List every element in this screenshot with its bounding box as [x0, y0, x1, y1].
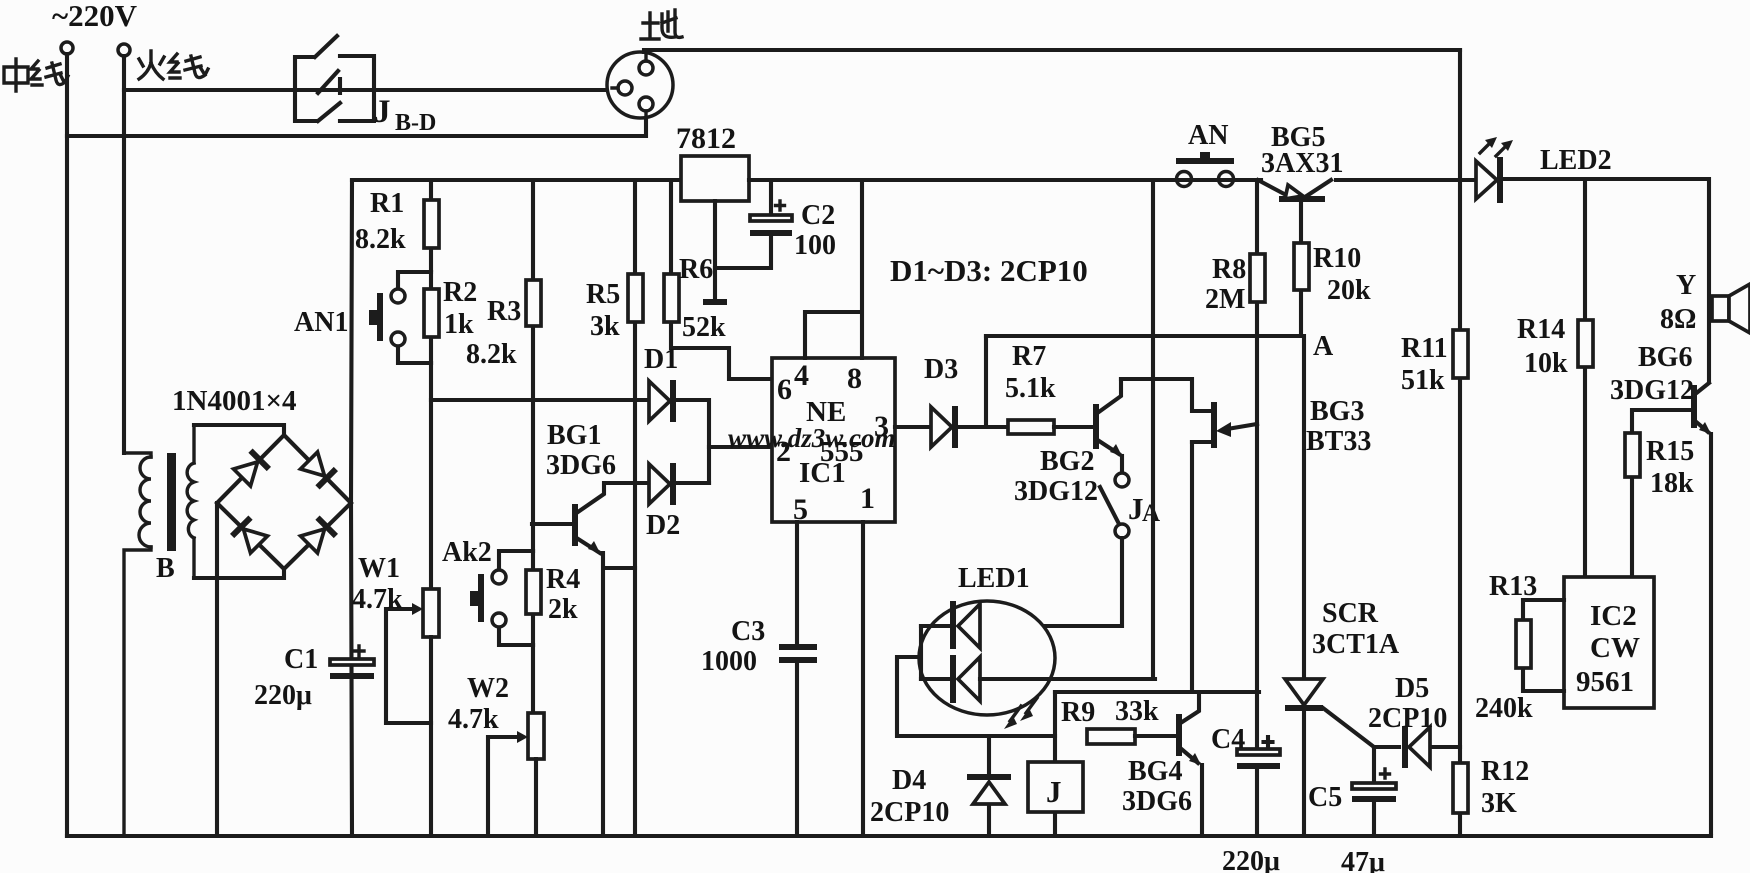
svg-text:A: A	[1313, 331, 1334, 362]
wire rail to LED line vertical	[1151, 180, 1155, 678]
wire bridge plus up to rail	[351, 180, 352, 836]
transistor BG3 BT33	[1192, 402, 1257, 448]
transformer B core	[167, 453, 176, 551]
wire pin2 tap	[709, 445, 772, 449]
svg-text:R2: R2	[443, 277, 477, 308]
capacitor C2	[715, 180, 792, 268]
IC2 box	[1564, 577, 1654, 708]
diode D5	[1374, 726, 1460, 768]
svg-text:R8: R8	[1212, 254, 1246, 285]
resistor R6	[664, 274, 679, 322]
svg-text:R10: R10	[1313, 243, 1361, 274]
resistor R12	[1453, 763, 1468, 813]
wire timing node horizontal to D1	[431, 398, 649, 402]
wire R6 column	[671, 180, 772, 379]
wire live to switch to socket	[124, 88, 606, 92]
svg-text:Ak2: Ak2	[442, 537, 492, 568]
svg-text:100: 100	[794, 230, 836, 261]
svg-text:D1~D3: 2CP10: D1~D3: 2CP10	[890, 253, 1088, 288]
pushbutton AN1	[369, 272, 431, 363]
rectifier bridge diamond	[217, 435, 351, 569]
transformer B primary coil	[124, 453, 151, 836]
wire R7 to BG2 base	[1054, 425, 1094, 429]
wire D2 to junction	[672, 481, 709, 485]
bridge diode bottom-left	[232, 518, 268, 554]
svg-text:R15: R15	[1646, 436, 1694, 467]
svg-text:BG3: BG3	[1310, 396, 1364, 427]
resistor R13 loop	[1516, 600, 1564, 691]
svg-text:B-D: B-D	[395, 110, 436, 136]
wire neutral vertical	[65, 54, 69, 836]
svg-text:220μ: 220μ	[1222, 846, 1280, 873]
svg-text:LED1: LED1	[958, 563, 1030, 594]
svg-text:52k: 52k	[682, 312, 726, 343]
capacitor C3	[779, 647, 817, 836]
socket 地 earth connector	[607, 52, 673, 118]
wire top earth rail	[644, 50, 1460, 52]
svg-text:4.7k: 4.7k	[448, 704, 499, 735]
svg-text:33k: 33k	[1115, 696, 1159, 727]
svg-text:9561: 9561	[1576, 666, 1634, 698]
svg-text:R9: R9	[1061, 697, 1095, 728]
capacitor C5	[1352, 747, 1396, 836]
svg-text:R14: R14	[1517, 314, 1565, 345]
resistor R9	[1087, 729, 1177, 744]
svg-text:20k: 20k	[1327, 275, 1371, 306]
svg-text:AN1: AN1	[294, 307, 348, 338]
resistor R3	[526, 280, 541, 326]
svg-text:3k: 3k	[590, 311, 620, 342]
svg-text:AN: AN	[1188, 120, 1228, 151]
svg-text:2M: 2M	[1205, 284, 1245, 315]
wire BG6 base R15	[1632, 410, 1694, 577]
diode D2	[649, 463, 673, 505]
svg-text:3DG12: 3DG12	[1014, 476, 1098, 507]
svg-text:D2: D2	[646, 510, 680, 541]
resistor R14	[1578, 320, 1593, 367]
bridge diode top-right	[300, 451, 336, 487]
svg-text:R3: R3	[487, 296, 521, 327]
svg-text:CW: CW	[1590, 632, 1640, 664]
resistor R10	[1294, 202, 1309, 336]
svg-text:BG4: BG4	[1128, 756, 1182, 787]
svg-text:47μ: 47μ	[1341, 847, 1385, 873]
svg-text:~220V: ~220V	[52, 0, 138, 33]
svg-text:8.2k: 8.2k	[466, 339, 517, 370]
transistor BG5	[1258, 180, 1331, 199]
svg-text:7812: 7812	[676, 122, 736, 155]
svg-text:R7: R7	[1012, 341, 1046, 372]
IC1 555 box	[772, 358, 895, 522]
wire R14 column	[1583, 179, 1587, 577]
svg-text:3DG6: 3DG6	[546, 450, 616, 481]
svg-text:1k: 1k	[444, 309, 474, 340]
svg-text:R6: R6	[679, 254, 713, 285]
resistor R8	[1250, 180, 1265, 424]
label J B-D	[374, 94, 436, 136]
svg-text:2CP10: 2CP10	[1368, 703, 1447, 734]
wire bottom ground rail	[67, 834, 1711, 838]
svg-text:J: J	[1046, 774, 1062, 809]
relay J coil	[1028, 692, 1083, 836]
wire BG1 collector to D2	[605, 481, 649, 485]
svg-text:1N4001×4: 1N4001×4	[172, 385, 296, 417]
wire relay node horizontal	[1055, 690, 1259, 694]
svg-text:220μ: 220μ	[254, 680, 312, 711]
svg-text:BG2: BG2	[1040, 446, 1094, 477]
resistor R2	[424, 272, 439, 363]
svg-text:4.7k: 4.7k	[352, 584, 403, 615]
svg-text:51k: 51k	[1401, 365, 1445, 396]
svg-text:LED2: LED2	[1540, 145, 1612, 176]
wire LED1 cathode loop	[897, 626, 1055, 736]
resistor R5	[628, 274, 643, 322]
wire second line to socket	[67, 117, 646, 136]
led LED2	[1476, 137, 1513, 203]
svg-text:1: 1	[860, 482, 875, 515]
svg-text:SCR: SCR	[1322, 598, 1379, 629]
wire R3 column	[531, 180, 535, 400]
wire LED2 to right column	[1503, 179, 1709, 380]
svg-text:IC2: IC2	[1590, 600, 1637, 632]
switch J B-D	[295, 36, 374, 121]
bridge diode top-left	[233, 451, 269, 487]
svg-text:C2: C2	[801, 200, 835, 231]
diode D4	[967, 736, 1011, 836]
wire pin4 pin8 supply	[805, 180, 862, 358]
svg-text:2CP10: 2CP10	[870, 797, 949, 828]
svg-text:3CT1A: 3CT1A	[1312, 629, 1400, 660]
transistor BG1	[532, 483, 635, 836]
svg-text:8.2k: 8.2k	[355, 224, 406, 255]
wire 7812 ground pin	[713, 201, 717, 301]
capacitor C4	[1237, 737, 1280, 836]
svg-text:BG1: BG1	[547, 420, 601, 451]
resistor R4	[526, 551, 541, 645]
wire main rail middle	[749, 178, 1261, 182]
svg-text:R13: R13	[1489, 571, 1537, 602]
wire emitter C4 vertical	[1255, 424, 1259, 750]
svg-text:3AX31: 3AX31	[1261, 148, 1343, 179]
led LED1 lower	[921, 655, 1155, 703]
diode D3	[931, 406, 955, 448]
transistor BG2	[1096, 379, 1122, 473]
potentiometer W1	[386, 589, 439, 836]
svg-text:www.dz3w.com: www.dz3w.com	[728, 423, 896, 453]
svg-text:J: J	[374, 94, 391, 130]
wire pin5 down	[795, 522, 799, 645]
svg-text:D5: D5	[1395, 673, 1429, 704]
svg-text:3DG12: 3DG12	[1610, 375, 1694, 406]
switch JA	[1100, 473, 1129, 538]
svg-text:IC1: IC1	[799, 457, 846, 489]
svg-text:6: 6	[777, 373, 792, 406]
wire bridge minus down	[215, 503, 219, 836]
pushbutton AN	[1176, 152, 1234, 187]
wire R5 column	[633, 180, 637, 836]
ground bar	[703, 299, 727, 305]
svg-text:R5: R5	[586, 279, 620, 310]
wire D1 to pin2 junction	[672, 400, 709, 483]
wire live vertical	[122, 56, 126, 453]
wire rail BG5 to LED2	[1336, 178, 1477, 182]
diode D1	[649, 380, 673, 422]
wire secondary to bridge bottom	[194, 569, 284, 578]
svg-text:W2: W2	[467, 673, 509, 704]
svg-text:Y: Y	[1676, 270, 1696, 301]
wire R11 R12 column	[1458, 50, 1462, 836]
resistor R1	[424, 200, 439, 248]
svg-text:1000: 1000	[701, 646, 757, 677]
bridge diode bottom-right	[300, 518, 336, 554]
svg-text:R11: R11	[1401, 333, 1448, 364]
svg-text:D3: D3	[924, 354, 958, 385]
transistor BG6	[1694, 383, 1711, 833]
svg-text:W1: W1	[358, 553, 400, 584]
svg-text:C4: C4	[1211, 724, 1245, 755]
wire node A horizontal	[986, 334, 1303, 338]
svg-text:3DG6: 3DG6	[1122, 786, 1192, 817]
wire main 12V rail left	[352, 178, 681, 182]
wire D3 to R7	[954, 425, 1008, 429]
wire BG2 collector to BT33	[1121, 379, 1214, 411]
svg-text:10k: 10k	[1524, 348, 1568, 379]
resistor R11	[1453, 330, 1468, 378]
transistor BG4	[1179, 692, 1202, 836]
led LED1 upper	[921, 601, 980, 649]
wire pin1 down	[861, 522, 865, 836]
resistor R7	[1008, 420, 1054, 434]
wire pin3 out	[895, 425, 931, 429]
pushbutton Ak2	[470, 551, 533, 645]
svg-text:2k: 2k	[548, 594, 578, 625]
svg-text:8Ω: 8Ω	[1660, 304, 1696, 335]
label 中线	[4, 59, 68, 91]
svg-text:240k: 240k	[1475, 693, 1533, 724]
svg-text:BG6: BG6	[1638, 342, 1692, 373]
transformer B secondary coil	[187, 425, 194, 578]
lamp LED1 envelope	[919, 601, 1055, 715]
regulator 7812	[681, 156, 749, 201]
wire BT33 B1 down	[1190, 442, 1194, 692]
node junction to A line	[984, 336, 988, 427]
label 火线	[139, 51, 208, 79]
label JA	[1128, 491, 1160, 527]
svg-text:D1: D1	[644, 344, 678, 375]
svg-text:3K: 3K	[1481, 788, 1517, 819]
svg-text:C1: C1	[284, 644, 318, 675]
node 中线 terminal	[61, 42, 73, 54]
wire R1 column	[429, 180, 433, 589]
capacitor C1	[330, 646, 374, 676]
svg-text:4: 4	[794, 359, 809, 392]
svg-text:C3: C3	[731, 616, 765, 647]
svg-text:R12: R12	[1481, 756, 1529, 787]
wire JA to LED1 top line	[980, 538, 1122, 626]
speaker Y	[1712, 284, 1750, 333]
wire SCR column	[1302, 336, 1306, 836]
potentiometer W2	[488, 713, 544, 836]
label 地	[641, 10, 682, 39]
wire secondary to bridge top	[194, 425, 284, 435]
wire R4 column top	[531, 400, 535, 713]
svg-text:R4: R4	[546, 564, 580, 595]
svg-text:C5: C5	[1308, 782, 1342, 813]
resistor R15	[1625, 433, 1640, 477]
node 火线 terminal	[118, 44, 130, 56]
emission arrows LED1	[1004, 698, 1037, 729]
svg-text:5.1k: 5.1k	[1005, 373, 1056, 404]
thyristor SCR	[1285, 679, 1374, 747]
svg-text:D4: D4	[892, 765, 926, 796]
svg-text:B: B	[156, 553, 175, 584]
svg-text:8: 8	[847, 362, 862, 395]
svg-text:18k: 18k	[1650, 468, 1694, 499]
svg-text:BT33: BT33	[1306, 426, 1371, 457]
svg-text:R1: R1	[370, 188, 404, 219]
